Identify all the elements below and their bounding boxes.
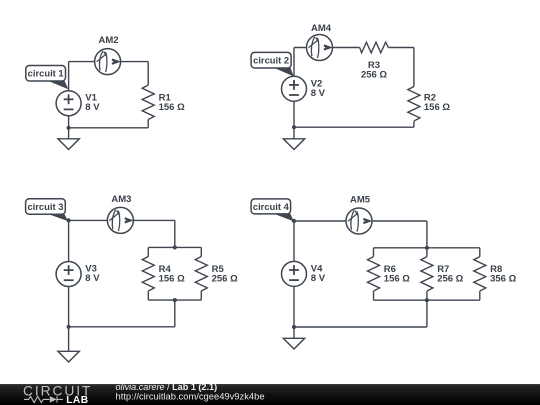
svg-text:8 V: 8 V	[85, 273, 100, 284]
svg-text:LAB: LAB	[66, 395, 88, 405]
svg-text:156 Ω: 156 Ω	[159, 102, 185, 113]
svg-text:AM2: AM2	[98, 35, 118, 46]
svg-text:circuit 4: circuit 4	[253, 201, 290, 212]
svg-text:circuit 2: circuit 2	[253, 55, 289, 66]
svg-text:256 Ω: 256 Ω	[361, 70, 387, 81]
svg-text:AM5: AM5	[350, 195, 371, 206]
svg-text:circuit 3: circuit 3	[27, 201, 63, 212]
svg-text:AM4: AM4	[311, 23, 332, 34]
svg-text:156 Ω: 156 Ω	[159, 273, 185, 284]
svg-text:356 Ω: 356 Ω	[490, 274, 516, 285]
svg-text:AM3: AM3	[111, 194, 131, 205]
svg-text:256 Ω: 256 Ω	[212, 273, 238, 284]
svg-text:156 Ω: 156 Ω	[424, 102, 450, 113]
svg-text:8 V: 8 V	[85, 102, 100, 113]
svg-text:circuit 1: circuit 1	[28, 68, 64, 79]
svg-text:8 V: 8 V	[311, 273, 326, 284]
svg-text:256 Ω: 256 Ω	[437, 274, 463, 285]
svg-text:8 V: 8 V	[311, 88, 326, 99]
svg-text:http://circuitlab.com/cgee49v9: http://circuitlab.com/cgee49v9zk4be	[116, 391, 265, 402]
svg-text:156 Ω: 156 Ω	[384, 274, 410, 285]
